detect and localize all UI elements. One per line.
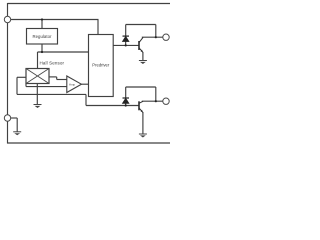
wire hall right output to amp input — [49, 76, 57, 78]
ground below hall sensor — [34, 105, 42, 109]
pin 1 terminal — [4, 16, 10, 22]
IC border top — [8, 3, 171, 5]
wire hall bias from regulator — [37, 52, 39, 69]
op-amp Amp — [67, 76, 82, 93]
pin 4 terminal — [163, 98, 169, 104]
transistor Q1 — [139, 37, 143, 52]
wire pin 2 to ground — [8, 117, 17, 119]
node D1 anode — [125, 44, 127, 46]
ground at Q1 emitter — [139, 61, 147, 65]
wire regulator top tap — [41, 20, 43, 29]
wire VCC from pin 1 to predriver — [8, 19, 99, 21]
IC border bottom — [7, 142, 170, 144]
wire amp output to predriver — [81, 83, 88, 85]
pin 2 terminal — [4, 115, 10, 121]
diode D2 — [123, 98, 130, 106]
node regulator top — [41, 18, 43, 20]
node D2 anode — [125, 104, 127, 106]
svg-text:Hall Sensor: Hall Sensor — [40, 60, 65, 65]
node regulator bottom — [41, 51, 43, 53]
wire top output line to pin 3 — [142, 36, 163, 38]
node top output — [155, 36, 157, 38]
diode D1 — [123, 36, 130, 45]
wire D2 loop to bottom output node — [125, 87, 127, 98]
hall sensor element — [26, 60, 64, 83]
wire hall ground drop — [36, 84, 38, 105]
wire bottom output line to pin 4 — [142, 100, 163, 102]
regulator block — [27, 29, 58, 45]
svg-text:Predriver: Predriver — [92, 62, 110, 67]
wire predriver to Q1 base — [113, 44, 139, 46]
ground at Q2 emitter — [139, 134, 147, 138]
wire D1 loop to top output node — [125, 25, 127, 37]
transistor Q2 — [139, 101, 143, 112]
wire regulator output — [41, 44, 43, 52]
predriver block — [89, 35, 114, 97]
wire hall left output loop to lower base wire — [17, 76, 26, 78]
svg-text:Amp: Amp — [69, 83, 76, 87]
svg-text:Regulator: Regulator — [32, 34, 52, 39]
wire Q1 emitter to ground — [142, 52, 144, 60]
IC border left — [7, 3, 9, 144]
ground at pin 2 — [13, 132, 21, 136]
node bottom output — [155, 100, 157, 102]
wire hall bottom-left corner to amp lower input — [25, 84, 27, 87]
pin 3 terminal — [163, 34, 169, 40]
wire Q2 emitter to ground — [142, 112, 144, 134]
